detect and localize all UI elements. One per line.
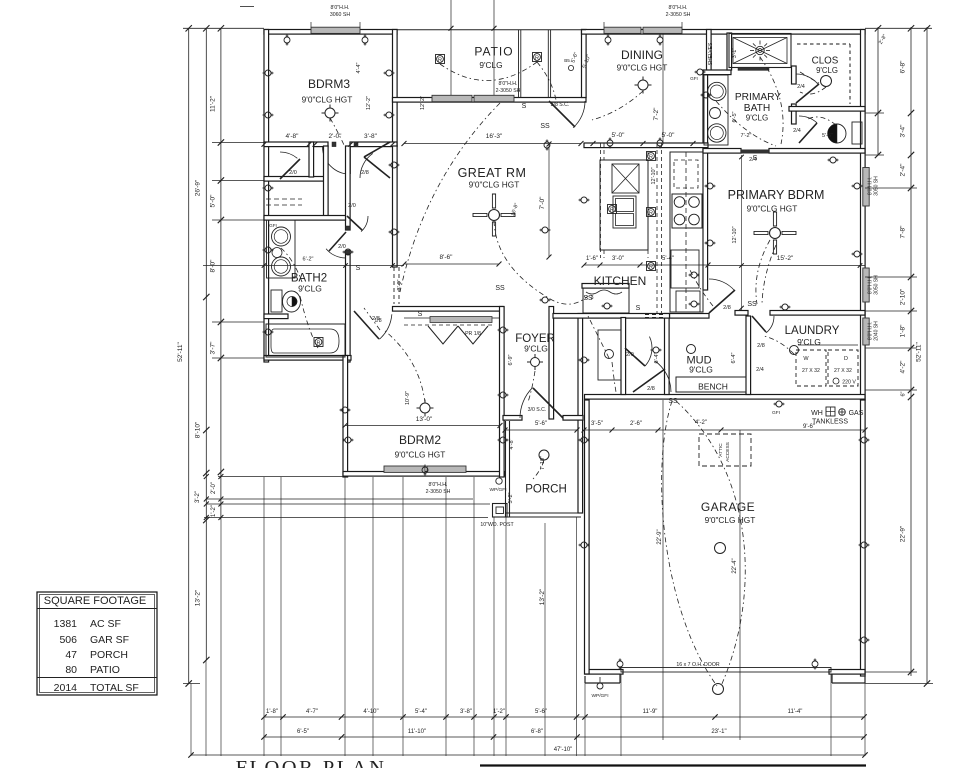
svg-text:2/0: 2/0 (348, 203, 356, 209)
svg-text:80: 80 (65, 664, 77, 676)
svg-text:2-3050 SH: 2-3050 SH (426, 489, 451, 495)
svg-text:12'-10": 12'-10" (732, 226, 738, 243)
svg-text:12'-10": 12'-10" (651, 167, 657, 184)
svg-text:3'-8": 3'-8" (460, 709, 472, 715)
svg-text:2'-0": 2'-0" (211, 482, 217, 494)
svg-text:9'0"CLG HGT: 9'0"CLG HGT (302, 95, 353, 105)
svg-text:4'-10": 4'-10" (363, 709, 378, 715)
svg-text:PORCH: PORCH (90, 649, 128, 661)
svg-text:16'-3": 16'-3" (486, 133, 503, 140)
svg-text:LAUNDRY: LAUNDRY (785, 325, 840, 337)
svg-text:S: S (636, 305, 641, 312)
svg-text:SS: SS (583, 295, 593, 302)
svg-text:12'-2": 12'-2" (366, 96, 372, 110)
svg-text:8'0"H.H.: 8'0"H.H. (499, 81, 518, 87)
svg-text:9'CLG: 9'CLG (524, 344, 548, 354)
svg-text:47: 47 (65, 649, 77, 661)
svg-text:5'-0": 5'-0" (210, 194, 217, 208)
svg-text:3'-0": 3'-0" (612, 256, 624, 262)
svg-text:6'-4": 6'-4" (731, 352, 737, 363)
svg-text:47'-10": 47'-10" (554, 747, 573, 753)
svg-text:12'-2": 12'-2" (420, 96, 426, 110)
svg-text:15'-2": 15'-2" (777, 255, 794, 262)
svg-text:3'-4": 3'-4" (900, 124, 907, 138)
svg-text:3'-7": 3'-7" (210, 341, 217, 355)
svg-text:1'-2": 1'-2" (211, 505, 217, 517)
svg-text:ATTIC: ATTIC (718, 443, 724, 457)
svg-text:2'-4": 2'-4" (900, 163, 907, 177)
svg-text:5'-6": 5'-6" (822, 133, 833, 139)
svg-text:3'-2": 3'-2" (195, 491, 201, 503)
svg-text:SS: SS (747, 301, 757, 308)
svg-text:6'-5": 6'-5" (732, 111, 738, 122)
svg-text:2'-6": 2'-6" (630, 421, 642, 427)
svg-text:PRIMARY: PRIMARY (735, 92, 781, 103)
svg-text:PR 1/8: PR 1/8 (465, 331, 481, 337)
svg-text:5'-6": 5'-6" (535, 421, 547, 427)
svg-text:52'-11": 52'-11" (177, 341, 184, 361)
svg-text:5'-0": 5'-0" (612, 132, 626, 139)
svg-text:2/0: 2/0 (626, 352, 634, 358)
svg-text:WP/GFI: WP/GFI (591, 693, 608, 699)
svg-text:SS: SS (495, 285, 505, 292)
svg-text:R: R (649, 154, 653, 160)
svg-text:BDRM2: BDRM2 (399, 433, 441, 447)
svg-text:2/4: 2/4 (793, 128, 801, 134)
svg-text:BDRM3: BDRM3 (308, 77, 350, 91)
svg-text:10"WD. POST: 10"WD. POST (480, 522, 514, 528)
svg-text:R: R (649, 210, 653, 216)
svg-text:2/8: 2/8 (647, 386, 655, 392)
svg-text:5'-6": 5'-6" (535, 709, 547, 715)
svg-text:11'-10": 11'-10" (408, 729, 426, 735)
svg-text:6'-5": 6'-5" (297, 729, 309, 735)
svg-text:PRIMARY BDRM: PRIMARY BDRM (728, 188, 825, 202)
svg-text:11'-2": 11'-2" (210, 95, 217, 112)
svg-text:6'-9": 6'-9" (508, 354, 514, 365)
svg-text:22'-9": 22'-9" (900, 525, 907, 542)
svg-text:R: R (438, 57, 442, 63)
svg-text:11'-9": 11'-9" (643, 709, 658, 715)
svg-text:8'0"H.H.: 8'0"H.H. (331, 5, 350, 11)
svg-text:2040 SH: 2040 SH (874, 321, 880, 341)
svg-text:2/0: 2/0 (338, 244, 346, 250)
svg-text:7'-10": 7'-10" (540, 456, 546, 470)
svg-text:1/8: 1/8 (374, 318, 381, 324)
svg-text:3'-8": 3'-8" (364, 133, 378, 140)
svg-text:2/4: 2/4 (797, 84, 805, 90)
svg-text:PORCH: PORCH (525, 484, 567, 496)
svg-text:7'-0": 7'-0" (539, 196, 546, 210)
svg-text:10'-9": 10'-9" (405, 391, 411, 405)
svg-text:9'CLG: 9'CLG (479, 60, 502, 70)
svg-text:16 x 7 O.H. DOOR: 16 x 7 O.H. DOOR (676, 662, 719, 668)
svg-text:6'-8": 6'-8" (900, 60, 907, 74)
svg-text:WP/GFI: WP/GFI (489, 487, 506, 493)
svg-text:SS: SS (540, 123, 550, 130)
svg-text:13'-0": 13'-0" (416, 416, 433, 423)
svg-text:3/0 S.C.: 3/0 S.C. (528, 407, 547, 413)
svg-text:S: S (356, 265, 361, 272)
svg-text:2-3050 SH: 2-3050 SH (666, 12, 691, 18)
svg-text:FLOOR PLAN: FLOOR PLAN (236, 757, 387, 768)
svg-text:8'-6": 8'-6" (440, 254, 454, 261)
svg-text:DINING: DINING (621, 48, 663, 62)
svg-text:506: 506 (59, 634, 77, 646)
svg-text:5'-2": 5'-2" (508, 492, 514, 503)
svg-text:9'CLG: 9'CLG (746, 114, 768, 123)
svg-text:TOTAL SF: TOTAL SF (90, 682, 139, 694)
svg-text:9'CLG: 9'CLG (298, 284, 322, 294)
svg-text:KITCHEN: KITCHEN (594, 274, 647, 288)
svg-text:7'-8": 7'-8" (900, 225, 907, 239)
svg-text:GAR SF: GAR SF (90, 634, 129, 646)
svg-text:9'CLG: 9'CLG (689, 365, 713, 375)
svg-text:PATIO: PATIO (474, 45, 513, 59)
svg-text:9'0"CLG HGT: 9'0"CLG HGT (617, 63, 668, 73)
svg-text:4'-8": 4'-8" (286, 133, 300, 140)
svg-text:1'-8": 1'-8" (266, 709, 278, 715)
svg-text:2014: 2014 (54, 682, 78, 694)
svg-text:2/8: 2/8 (361, 170, 369, 176)
svg-text:GFI: GFI (690, 76, 698, 81)
svg-text:SHELVES: SHELVES (708, 42, 714, 65)
svg-text:220 V: 220 V (842, 380, 856, 386)
svg-text:8'-10": 8'-10" (195, 421, 202, 438)
svg-text:2/0: 2/0 (289, 170, 297, 176)
svg-text:9'0"CLG HGT: 9'0"CLG HGT (395, 450, 446, 460)
svg-text:S: S (522, 103, 527, 110)
svg-text:CLOS: CLOS (812, 56, 839, 67)
svg-text:22'-4": 22'-4" (732, 558, 738, 573)
svg-text:7'-2": 7'-2" (741, 133, 752, 139)
svg-text:1'-2": 1'-2" (493, 709, 505, 715)
svg-text:9'0"CLG HGT: 9'0"CLG HGT (469, 180, 520, 190)
svg-text:GFI: GFI (269, 223, 277, 228)
svg-text:5'-4": 5'-4" (662, 256, 674, 262)
svg-text:8'0"H.H.: 8'0"H.H. (429, 482, 448, 488)
svg-text:3'-0": 3'-0" (397, 279, 403, 290)
svg-text:23'-1": 23'-1" (711, 729, 726, 735)
svg-text:TANKLESS: TANKLESS (812, 419, 848, 426)
svg-text:2/4: 2/4 (756, 367, 764, 373)
svg-text:13'-2": 13'-2" (195, 589, 202, 606)
svg-text:3050 SH: 3050 SH (874, 275, 880, 295)
svg-text:AC SF: AC SF (90, 618, 121, 630)
svg-text:3050 SH: 3050 SH (874, 176, 880, 196)
svg-text:22'-9": 22'-9" (657, 529, 663, 544)
svg-text:11'-4": 11'-4" (788, 709, 803, 715)
svg-text:26'-9": 26'-9" (195, 179, 202, 196)
svg-text:W: W (803, 356, 809, 362)
svg-text:PATIO: PATIO (90, 664, 120, 676)
svg-text:6'-8": 6'-8" (531, 729, 543, 735)
svg-text:4'-2": 4'-2" (900, 360, 907, 374)
svg-text:R: R (610, 207, 614, 213)
svg-text:2/8 S.C.: 2/8 S.C. (551, 102, 570, 108)
svg-text:R: R (535, 55, 539, 61)
svg-text:SQUARE FOOTAGE: SQUARE FOOTAGE (44, 595, 146, 607)
svg-text:S: S (753, 155, 758, 162)
svg-text:9'0"CLG HGT: 9'0"CLG HGT (747, 204, 798, 214)
svg-text:2/8: 2/8 (723, 305, 731, 311)
svg-text:1'-8": 1'-8" (900, 324, 907, 338)
svg-text:S: S (418, 311, 423, 318)
svg-text:1381: 1381 (54, 618, 78, 630)
svg-text:GARAGE: GARAGE (701, 500, 755, 514)
svg-text:5'-4": 5'-4" (415, 709, 427, 715)
svg-text:2-3050 SH: 2-3050 SH (496, 88, 521, 94)
svg-text:6'-4": 6'-4" (654, 352, 660, 363)
svg-text:8'0"H.H.: 8'0"H.H. (669, 5, 688, 11)
svg-text:9'CLG: 9'CLG (797, 337, 821, 347)
svg-text:ACCESS: ACCESS (725, 442, 731, 462)
svg-text:2'-0": 2'-0" (329, 133, 343, 140)
svg-text:3060 SH: 3060 SH (330, 12, 350, 18)
svg-text:6'-2": 6'-2" (303, 257, 314, 263)
svg-text:BENCH: BENCH (698, 382, 728, 392)
svg-text:4'-7": 4'-7" (306, 709, 318, 715)
svg-text:D: D (844, 356, 848, 362)
svg-text:5'-0": 5'-0" (662, 132, 676, 139)
svg-text:9'0"CLG HGT: 9'0"CLG HGT (705, 515, 756, 525)
svg-text:27 X 32: 27 X 32 (834, 368, 852, 374)
svg-text:52'-11": 52'-11" (916, 341, 923, 361)
svg-text:4'-4": 4'-4" (356, 62, 362, 73)
svg-text:4'-8": 4'-8" (509, 438, 515, 449)
svg-text:2/8: 2/8 (757, 343, 765, 349)
svg-text:9'CLG: 9'CLG (816, 66, 838, 75)
svg-text:1'-6": 1'-6" (586, 256, 598, 262)
svg-text:GAS: GAS (849, 410, 864, 417)
svg-text:6": 6" (901, 391, 907, 396)
svg-text:GREAT RM: GREAT RM (458, 166, 527, 180)
svg-text:4'-2": 4'-2" (695, 420, 707, 426)
svg-text:3'-5": 3'-5" (591, 421, 603, 427)
svg-text:27 X 32: 27 X 32 (802, 368, 820, 374)
svg-text:7'-2": 7'-2" (653, 107, 660, 121)
svg-text:BATH: BATH (744, 103, 770, 114)
svg-text:3'-1": 3'-1" (732, 48, 738, 58)
svg-text:GFI: GFI (772, 410, 780, 416)
svg-text:2'-10": 2'-10" (900, 288, 907, 305)
svg-text:WH: WH (811, 410, 823, 417)
